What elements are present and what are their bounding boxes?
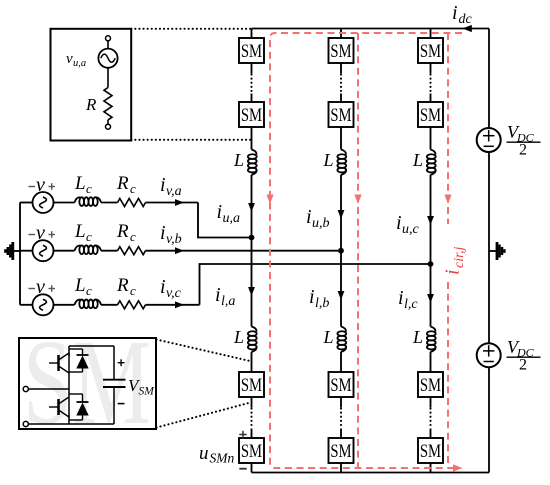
SM box 4 leg c bbox=[418, 438, 443, 463]
wire bbox=[101, 250, 118, 252]
label Lc row a bbox=[74, 173, 92, 196]
watermark SM bbox=[23, 315, 151, 450]
svg-text:v: v bbox=[66, 51, 73, 67]
svg-text:L: L bbox=[74, 221, 86, 242]
label i_v,c bbox=[160, 276, 182, 301]
svg-text:2: 2 bbox=[519, 357, 527, 374]
svg-text:c: c bbox=[130, 229, 136, 244]
dotted arm continuation lower leg a bbox=[250, 409, 252, 428]
wire corner to node c bbox=[200, 264, 431, 305]
wire bbox=[251, 63, 253, 74]
svg-text:L: L bbox=[412, 327, 423, 347]
label Rc row a bbox=[116, 173, 136, 196]
wire right rail middle bbox=[488, 152, 490, 343]
label + (capacitor) bbox=[118, 359, 125, 366]
label V_DC/2 bottom bbox=[507, 337, 541, 374]
wire bbox=[107, 68, 109, 88]
inductor Lc row a bbox=[75, 197, 102, 206]
wire bbox=[340, 63, 342, 74]
diode D2 (lower) bbox=[69, 394, 89, 420]
svg-text:dc: dc bbox=[459, 12, 473, 27]
svg-text:R: R bbox=[116, 221, 129, 242]
resistor R (inset) bbox=[104, 88, 112, 120]
svg-text:cir,j: cir,j bbox=[452, 247, 467, 269]
arrow i_u,a bbox=[248, 203, 255, 212]
wire left common rail bbox=[19, 203, 21, 305]
svg-text:i: i bbox=[452, 2, 458, 24]
svg-text:SM: SM bbox=[241, 441, 262, 462]
svg-text:l,c: l,c bbox=[404, 297, 418, 312]
label V_SM bbox=[128, 376, 155, 398]
label i_l,a bbox=[215, 284, 235, 309]
svg-text:L: L bbox=[323, 327, 334, 347]
wire node c to lower arm bbox=[430, 264, 432, 327]
svg-text:v: v bbox=[36, 276, 45, 298]
wire bbox=[251, 397, 253, 408]
svg-text:v: v bbox=[36, 222, 45, 244]
SM box 2 leg c bbox=[418, 102, 443, 127]
transistor T2 (lower IGBT) bbox=[49, 397, 69, 418]
svg-text:u,c: u,c bbox=[402, 222, 420, 237]
inductor L lower leg a bbox=[233, 327, 257, 352]
label i_l,b bbox=[309, 286, 329, 311]
svg-text:SM: SM bbox=[241, 105, 262, 126]
svg-text:R: R bbox=[116, 275, 129, 296]
red dashed vertical leg b bbox=[357, 33, 359, 468]
svg-text:i: i bbox=[160, 174, 166, 196]
wire top bus bbox=[252, 28, 490, 30]
svg-text:L: L bbox=[412, 150, 423, 170]
source VDC/2 bottom bbox=[477, 343, 501, 367]
red arrow leg c bbox=[444, 195, 451, 205]
svg-text:SM: SM bbox=[330, 41, 351, 62]
wire bbox=[54, 250, 75, 252]
inset box submodule bbox=[19, 338, 156, 429]
wire leg c top bbox=[430, 29, 432, 39]
label Lc row c bbox=[74, 275, 92, 298]
wire with arrow to node b bbox=[146, 250, 342, 252]
node a bbox=[249, 235, 255, 241]
wire bbox=[340, 397, 342, 408]
label i_v,b bbox=[160, 222, 182, 247]
label + (u_SMn) bbox=[239, 431, 246, 438]
wire bbox=[54, 304, 75, 306]
label v_u,a bbox=[66, 51, 86, 69]
svg-text:SM: SM bbox=[330, 441, 351, 462]
svg-text:i: i bbox=[160, 276, 166, 298]
red arrow bottom (loop direction) bbox=[453, 464, 463, 471]
wire bbox=[251, 352, 253, 372]
arrow i_l,b bbox=[338, 291, 345, 300]
wire bbox=[430, 127, 432, 150]
wire node b to lower arm bbox=[340, 251, 342, 327]
wire bbox=[251, 94, 253, 103]
diode D1 (upper) bbox=[69, 349, 89, 372]
wire bbox=[430, 429, 432, 439]
label i_cir,j bbox=[442, 247, 468, 276]
wire bbox=[340, 463, 342, 473]
dotted arm continuation lower leg c bbox=[429, 409, 431, 428]
label u_SMn bbox=[199, 443, 234, 466]
capacitor C_SM bbox=[103, 346, 126, 424]
inductor L lower leg b bbox=[323, 327, 347, 352]
wire bottom bus bbox=[252, 472, 490, 474]
resistor Rc row c bbox=[118, 301, 146, 309]
inductor L upper leg c bbox=[412, 150, 436, 175]
label -v+ row a bbox=[29, 174, 56, 196]
label i_l,c bbox=[398, 287, 418, 312]
terminal SM lower bbox=[23, 421, 28, 426]
source v_u,a bbox=[98, 49, 117, 68]
dotted link top bbox=[131, 28, 251, 30]
wire bbox=[430, 63, 432, 74]
svg-text:u: u bbox=[199, 443, 209, 464]
svg-text:l,b: l,b bbox=[315, 296, 329, 311]
label - (capacitor) bbox=[118, 403, 125, 405]
wire bbox=[101, 202, 118, 204]
svg-text:R: R bbox=[85, 95, 97, 114]
label Rc row c bbox=[116, 275, 136, 298]
svg-text:i: i bbox=[215, 284, 221, 306]
wire bbox=[54, 202, 75, 204]
resistor Rc row b bbox=[118, 247, 146, 255]
label i_u,b bbox=[306, 206, 330, 231]
svg-text:R: R bbox=[116, 173, 129, 194]
ground right bbox=[489, 242, 504, 260]
wire bbox=[430, 94, 432, 103]
svg-text:SM: SM bbox=[241, 375, 262, 396]
wire midpoint lead bbox=[28, 388, 69, 390]
label Lc row b bbox=[74, 221, 92, 244]
SM box 4 leg a bbox=[239, 438, 264, 463]
terminal SM upper bbox=[23, 386, 28, 391]
svg-text:u,a: u,a bbox=[73, 58, 86, 69]
svg-text:v,c: v,c bbox=[166, 286, 182, 301]
wire bbox=[340, 352, 342, 372]
inductor L upper leg b bbox=[323, 150, 347, 175]
svg-text:i: i bbox=[396, 212, 402, 234]
dotted link bottom bbox=[131, 139, 251, 141]
red arrow leg a bbox=[266, 195, 273, 205]
svg-text:L: L bbox=[233, 327, 244, 347]
wire upper arm to node a bbox=[251, 175, 253, 238]
wire corner to node a bbox=[198, 203, 252, 238]
label -v+ row c bbox=[29, 276, 56, 298]
svg-text:i: i bbox=[309, 286, 315, 308]
label i_v,a bbox=[160, 174, 182, 199]
circulating current loop outline bbox=[270, 33, 462, 468]
wire upper arm to node c bbox=[430, 175, 432, 264]
wire right rail top bbox=[488, 29, 490, 129]
SM box 3 leg a bbox=[239, 372, 264, 397]
source VDC/2 top bbox=[477, 128, 501, 152]
SM box 1 leg a bbox=[239, 38, 264, 63]
label V_DC/2 top bbox=[507, 122, 541, 159]
SM box 2 leg a bbox=[239, 102, 264, 127]
label - (u_SMn) bbox=[239, 468, 246, 470]
svg-text:SM: SM bbox=[241, 41, 262, 62]
wire bbox=[430, 463, 432, 473]
dotted zoom line upper bbox=[157, 340, 251, 362]
inductor Lc row c bbox=[75, 300, 102, 309]
dotted arm continuation upper leg b bbox=[340, 75, 342, 93]
label -v+ row b bbox=[29, 222, 56, 244]
wire bbox=[251, 127, 253, 150]
resistor Rc row a bbox=[118, 199, 146, 207]
wire with arrow bbox=[146, 304, 200, 306]
wire bbox=[430, 397, 432, 408]
svg-text:i: i bbox=[160, 222, 166, 244]
svg-text:v,b: v,b bbox=[166, 232, 182, 247]
svg-text:SM: SM bbox=[330, 375, 351, 396]
svg-text:c: c bbox=[86, 229, 92, 244]
label i_dc bbox=[452, 2, 473, 27]
label Rc row b bbox=[116, 221, 136, 244]
svg-text:i: i bbox=[217, 201, 223, 223]
dotted zoom line lower bbox=[157, 403, 251, 428]
svg-text:SM: SM bbox=[420, 105, 441, 126]
svg-text:u,b: u,b bbox=[312, 216, 330, 231]
wire half-bridge vertical bbox=[68, 346, 70, 356]
svg-text:SM: SM bbox=[330, 105, 351, 126]
dotted arm continuation lower leg b bbox=[340, 409, 342, 428]
wire bbox=[340, 429, 342, 439]
svg-text:i: i bbox=[306, 206, 312, 228]
svg-text:SM: SM bbox=[139, 386, 156, 398]
wire with arrow bbox=[146, 202, 199, 204]
terminal top bbox=[106, 36, 111, 41]
wire bbox=[430, 352, 432, 372]
svg-text:SM: SM bbox=[420, 441, 441, 462]
SM box 4 leg b bbox=[329, 438, 354, 463]
svg-text:SM: SM bbox=[420, 375, 441, 396]
wire bbox=[107, 41, 109, 49]
wire bbox=[340, 127, 342, 150]
source v_a bbox=[20, 192, 54, 213]
svg-text:SMn: SMn bbox=[210, 451, 235, 466]
label i_u,c bbox=[396, 212, 420, 237]
wire bbox=[107, 120, 109, 124]
svg-text:v: v bbox=[36, 174, 45, 196]
svg-text:L: L bbox=[323, 150, 334, 170]
arrow i_u,c bbox=[427, 216, 434, 225]
arrow i_v,a bbox=[175, 199, 184, 206]
node b bbox=[338, 248, 344, 254]
svg-text:L: L bbox=[74, 275, 86, 296]
ground left bbox=[5, 242, 20, 260]
svg-text:L: L bbox=[233, 150, 244, 170]
label i_u,a bbox=[217, 201, 241, 226]
svg-text:l,a: l,a bbox=[221, 294, 235, 309]
arrow i_l,a bbox=[248, 287, 255, 296]
svg-text:c: c bbox=[86, 181, 92, 196]
arrow i_v,b bbox=[175, 247, 184, 254]
terminal bottom bbox=[106, 124, 111, 129]
arrow i_l,c bbox=[427, 294, 434, 303]
svg-text:i: i bbox=[398, 287, 404, 309]
red dashed vertical leg c bbox=[447, 33, 449, 224]
svg-text:SM: SM bbox=[420, 41, 441, 62]
svg-text:c: c bbox=[130, 283, 136, 298]
SM box 3 leg c bbox=[418, 372, 443, 397]
wire bottom rail bbox=[28, 423, 114, 425]
wire bbox=[251, 429, 253, 439]
SM box 2 leg b bbox=[329, 102, 354, 127]
svg-text:L: L bbox=[74, 173, 86, 194]
wire bbox=[251, 463, 253, 473]
source v_c bbox=[20, 294, 54, 315]
wire top rail bbox=[69, 345, 114, 347]
wire right rail bottom bbox=[488, 367, 490, 472]
svg-text:v,a: v,a bbox=[166, 184, 182, 199]
svg-text:i: i bbox=[442, 269, 464, 275]
inductor L lower leg c bbox=[412, 327, 436, 352]
svg-text:c: c bbox=[86, 283, 92, 298]
inset box upper arm bbox=[51, 29, 132, 141]
dotted arm continuation upper leg c bbox=[429, 75, 431, 93]
wire upper arm to node b bbox=[340, 175, 342, 251]
arrow i_v,c bbox=[175, 301, 184, 308]
svg-text:u,a: u,a bbox=[223, 211, 241, 226]
wire leg a top bbox=[251, 29, 253, 39]
inductor L upper leg a bbox=[233, 150, 257, 175]
inductor Lc row b bbox=[75, 245, 102, 254]
svg-text:c: c bbox=[130, 181, 136, 196]
transistor T1 (upper IGBT) bbox=[49, 353, 69, 374]
dotted arm continuation upper leg a bbox=[250, 75, 252, 93]
wire bbox=[340, 94, 342, 103]
wire node a to lower arm bbox=[251, 238, 253, 327]
SM box 3 leg b bbox=[329, 372, 354, 397]
SM box 1 leg c bbox=[418, 38, 443, 63]
arrow i_u,b bbox=[338, 210, 345, 219]
wire bbox=[101, 304, 118, 306]
SM box 1 leg b bbox=[329, 38, 354, 63]
source v_b bbox=[20, 240, 54, 261]
node c bbox=[428, 261, 434, 267]
svg-text:2: 2 bbox=[519, 142, 527, 159]
red arrow leg b bbox=[354, 195, 361, 205]
wire leg b top bbox=[340, 29, 342, 39]
arrow i_dc bbox=[463, 25, 472, 32]
